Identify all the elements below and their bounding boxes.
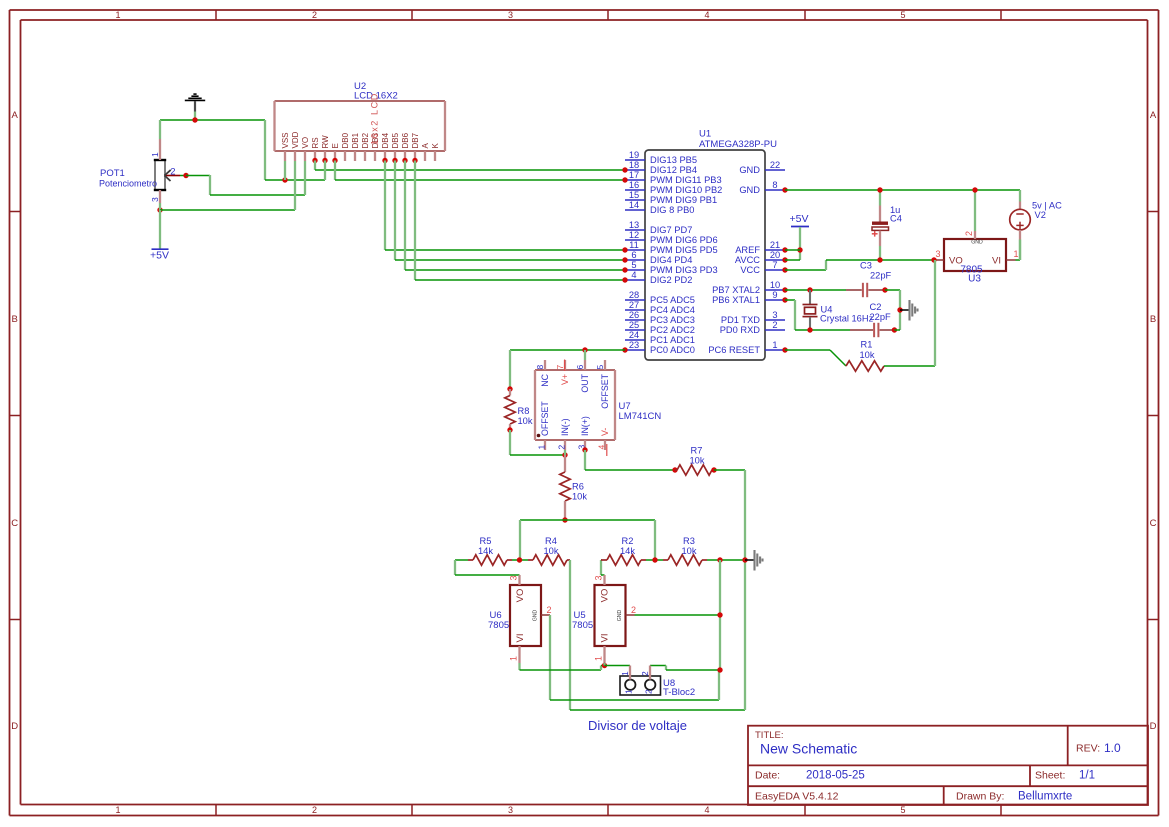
svg-text:5: 5 — [595, 365, 605, 370]
svg-text:10k: 10k — [518, 416, 533, 426]
svg-text:RW: RW — [321, 135, 330, 149]
svg-text:26: 26 — [629, 310, 639, 320]
wire — [509, 350, 511, 389]
resistor R3 10k — [663, 536, 707, 565]
svg-text:3: 3 — [772, 310, 777, 320]
node gnd junction — [192, 117, 197, 122]
node U5 VI junction — [602, 663, 607, 668]
svg-text:OFFSET: OFFSET — [540, 401, 550, 436]
svg-text:1: 1 — [594, 656, 604, 661]
svg-text:PC6 RESET: PC6 RESET — [708, 345, 760, 355]
node U1 left pin — [622, 247, 627, 252]
svg-text:DIG7 PD7: DIG7 PD7 — [650, 225, 692, 235]
node — [717, 612, 722, 617]
potentiometer POT1 — [99, 139, 186, 203]
wire — [584, 350, 586, 360]
svg-text:Bellumxrte: Bellumxrte — [1018, 791, 1072, 803]
svg-text:Date:: Date: — [755, 770, 780, 782]
svg-text:15: 15 — [629, 190, 639, 200]
label Divisor de voltaje — [588, 718, 687, 733]
svg-text:R3: R3 — [683, 536, 695, 546]
capacitor C2 22pF — [850, 302, 894, 337]
svg-text:LM741CN: LM741CN — [619, 411, 662, 422]
svg-text:K: K — [431, 143, 440, 149]
power flag +5V (left) — [150, 249, 169, 261]
svg-text:3: 3 — [936, 249, 941, 259]
wire — [707, 559, 745, 561]
svg-text:A: A — [12, 110, 19, 121]
svg-text:R5: R5 — [480, 536, 492, 546]
wire — [885, 290, 900, 330]
source V2 5v|AC — [1010, 190, 1062, 260]
svg-text:5: 5 — [631, 260, 636, 270]
svg-text:28: 28 — [629, 290, 639, 300]
svg-text:PB7 XTAL2: PB7 XTAL2 — [712, 285, 760, 295]
node LCD pin junction — [412, 158, 417, 163]
wire — [785, 259, 800, 261]
node — [742, 557, 747, 562]
svg-text:1: 1 — [115, 10, 120, 20]
svg-text:2: 2 — [312, 805, 317, 815]
svg-text:14: 14 — [629, 200, 639, 210]
svg-text:16x2 LCD: 16x2 LCD — [370, 92, 380, 145]
svg-text:19: 19 — [629, 150, 639, 160]
wire GND rail — [785, 189, 1020, 191]
svg-text:C4: C4 — [890, 214, 902, 224]
wire — [1016, 240, 1021, 261]
svg-text:OFFSET: OFFSET — [600, 373, 610, 408]
svg-text:B: B — [1150, 314, 1156, 325]
svg-text:E: E — [331, 143, 340, 148]
node U1 right pin — [782, 267, 787, 272]
op-amp U7 LM741CN — [535, 360, 662, 457]
svg-text:T-Bloc2: T-Bloc2 — [663, 687, 695, 698]
svg-text:PB6 XTAL1: PB6 XTAL1 — [712, 295, 760, 305]
svg-text:5: 5 — [900, 10, 905, 20]
node R8 top — [507, 386, 512, 391]
svg-text:DB5: DB5 — [391, 132, 400, 148]
svg-text:1/1: 1/1 — [1079, 770, 1095, 782]
node wiper junction — [183, 173, 188, 178]
svg-text:V2: V2 — [1035, 210, 1046, 220]
svg-text:6: 6 — [575, 365, 585, 370]
node U3 GND junction — [972, 187, 977, 192]
svg-text:PWM DIG10 PB2: PWM DIG10 PB2 — [650, 185, 722, 195]
node U1 left pin — [622, 257, 627, 262]
svg-text:PWM DIG11 PB3: PWM DIG11 PB3 — [650, 175, 722, 185]
wire — [159, 120, 161, 139]
node U1 right pin — [782, 287, 787, 292]
wire — [601, 560, 605, 575]
svg-text:3: 3 — [150, 197, 160, 202]
svg-text:10k: 10k — [572, 491, 587, 501]
node U1 left pin — [622, 167, 627, 172]
wire — [1019, 189, 1021, 191]
svg-text:3: 3 — [508, 10, 513, 20]
svg-text:2: 2 — [170, 167, 175, 178]
wire — [265, 179, 325, 181]
node U1 right pin — [782, 247, 787, 252]
svg-text:2: 2 — [547, 605, 552, 615]
svg-text:22pF: 22pF — [870, 271, 892, 281]
svg-text:8: 8 — [535, 365, 545, 370]
node AREF junction — [797, 247, 802, 252]
wire — [160, 119, 265, 121]
wire — [520, 519, 655, 521]
ground (gray) at divider — [745, 550, 763, 571]
svg-text:2: 2 — [312, 10, 317, 20]
node LCD pin junction — [332, 158, 337, 163]
svg-text:R8: R8 — [518, 406, 530, 416]
svg-text:10k: 10k — [682, 546, 697, 556]
wire DB7 to DIG2 — [415, 161, 625, 281]
svg-text:1: 1 — [537, 445, 547, 450]
resistor R4 10k — [528, 536, 570, 565]
node R8 bottom — [507, 427, 512, 432]
wire — [785, 249, 800, 251]
svg-text:RS: RS — [311, 137, 320, 148]
svg-text:REV:: REV: — [1076, 743, 1100, 755]
svg-text:VSS: VSS — [281, 132, 290, 148]
node R7 left — [672, 467, 677, 472]
wire — [160, 209, 295, 211]
svg-text:DB7: DB7 — [411, 132, 420, 148]
svg-text:B: B — [12, 314, 18, 325]
svg-text:10: 10 — [770, 280, 780, 290]
svg-text:Sheet:: Sheet: — [1035, 770, 1065, 782]
svg-text:2: 2 — [964, 231, 974, 236]
svg-text:R6: R6 — [572, 482, 584, 492]
svg-text:AVCC: AVCC — [735, 255, 760, 265]
svg-text:NC: NC — [540, 373, 550, 386]
svg-text:V+: V+ — [560, 374, 570, 385]
svg-text:6: 6 — [631, 250, 636, 260]
svg-text:3: 3 — [508, 805, 513, 815]
svg-text:POT1: POT1 — [100, 168, 125, 179]
node LCD pin junction — [382, 158, 387, 163]
node C4 top — [877, 187, 882, 192]
wire — [570, 560, 745, 710]
svg-text:13: 13 — [629, 220, 639, 230]
svg-text:10k: 10k — [544, 546, 559, 556]
svg-text:3: 3 — [594, 575, 604, 580]
wire — [194, 112, 196, 121]
node IN+ junction — [582, 447, 587, 452]
svg-text:4: 4 — [704, 805, 709, 815]
node — [807, 287, 812, 292]
regulator U6 7805 — [488, 575, 552, 663]
svg-text:PWM DIG5 PD5: PWM DIG5 PD5 — [650, 245, 718, 255]
wire — [159, 210, 161, 249]
svg-text:D: D — [11, 721, 18, 732]
svg-text:14k: 14k — [620, 546, 635, 556]
svg-text:DB1: DB1 — [351, 132, 360, 148]
svg-text:2: 2 — [644, 689, 654, 694]
svg-text:4: 4 — [597, 445, 607, 450]
node C4 bottom — [877, 257, 882, 262]
node U1 right pin — [782, 257, 787, 262]
svg-text:7805: 7805 — [488, 620, 509, 631]
wire — [510, 430, 565, 455]
title block — [748, 726, 1148, 805]
svg-text:OUT: OUT — [580, 373, 590, 392]
wire — [714, 470, 745, 560]
svg-text:VI: VI — [515, 634, 526, 643]
svg-text:8: 8 — [772, 180, 777, 190]
svg-text:VO: VO — [301, 137, 310, 149]
wire — [294, 161, 296, 210]
svg-text:C: C — [11, 518, 18, 529]
svg-text:1.0: 1.0 — [1104, 741, 1121, 755]
resistor R2 14k — [601, 536, 646, 565]
svg-text:1: 1 — [620, 671, 630, 676]
svg-text:Potenciometro: Potenciometro — [99, 179, 157, 189]
wire — [884, 260, 935, 366]
wire DB4 to DIG5 — [385, 161, 625, 251]
regulator U5 7805 — [572, 575, 636, 663]
node R6 bottom — [562, 517, 567, 522]
svg-text:22: 22 — [770, 160, 780, 170]
node — [717, 667, 722, 672]
svg-text:PC1 ADC1: PC1 ADC1 — [650, 335, 695, 345]
svg-text:20: 20 — [770, 250, 780, 260]
svg-text:DB6: DB6 — [401, 132, 410, 148]
svg-text:AREF: AREF — [735, 245, 760, 255]
wire — [605, 663, 631, 666]
svg-text:PWM DIG3 PD3: PWM DIG3 PD3 — [650, 265, 718, 275]
wire RW to VSS — [324, 161, 326, 181]
wire — [585, 450, 675, 470]
wire — [564, 450, 566, 455]
terminal block U8 T-Bloc2 — [620, 666, 695, 699]
svg-text:10k: 10k — [860, 350, 875, 360]
svg-text:2: 2 — [640, 671, 650, 676]
node R7 right — [711, 467, 716, 472]
svg-text:7: 7 — [772, 260, 777, 270]
svg-text:2: 2 — [772, 320, 777, 330]
svg-text:27: 27 — [629, 300, 639, 310]
svg-text:VDD: VDD — [291, 131, 300, 148]
svg-text:DB4: DB4 — [381, 132, 390, 148]
svg-text:PWM DIG9 PB1: PWM DIG9 PB1 — [650, 195, 717, 205]
wire — [264, 120, 266, 180]
wire U6 GND — [550, 615, 719, 700]
svg-text:18: 18 — [629, 160, 639, 170]
ground (gray) at crystal — [900, 300, 918, 321]
wire RESET — [785, 350, 846, 366]
node OUT junction — [582, 347, 587, 352]
node U1 left pin — [622, 277, 627, 282]
wire — [650, 666, 720, 671]
svg-text:PD1 TXD: PD1 TXD — [721, 315, 760, 325]
svg-text:PC4 ADC4: PC4 ADC4 — [650, 305, 695, 315]
node R2/R3 junction — [652, 557, 657, 562]
wire — [654, 520, 656, 560]
svg-text:IN(-): IN(-) — [560, 418, 570, 436]
node — [882, 287, 887, 292]
wire — [209, 175, 211, 195]
svg-text:1: 1 — [509, 656, 519, 661]
crystal U4 — [803, 290, 874, 330]
wire — [519, 520, 521, 560]
svg-text:Crystal 16Hz: Crystal 16Hz — [820, 314, 874, 324]
svg-text:VI: VI — [600, 634, 611, 643]
svg-text:A: A — [1150, 110, 1157, 121]
svg-text:1: 1 — [150, 152, 160, 157]
node U1 left pin — [622, 177, 627, 182]
svg-text:GND: GND — [971, 240, 983, 246]
wire — [646, 559, 663, 561]
wire VSS stub — [284, 161, 286, 180]
svg-text:1: 1 — [115, 805, 120, 815]
svg-text:U3: U3 — [968, 274, 981, 285]
svg-text:24: 24 — [629, 330, 639, 340]
node LCD pin junction — [392, 158, 397, 163]
wire — [210, 194, 305, 196]
wire RS to DIG12 — [315, 161, 625, 171]
svg-text:New Schematic: New Schematic — [760, 741, 857, 757]
svg-text:EasyEDA V5.4.12: EasyEDA V5.4.12 — [755, 791, 839, 803]
svg-text:R1: R1 — [861, 340, 873, 350]
node — [892, 327, 897, 332]
svg-text:TITLE:: TITLE: — [755, 730, 784, 741]
wire — [455, 560, 520, 575]
svg-text:C: C — [1150, 518, 1157, 529]
svg-text:25: 25 — [629, 320, 639, 330]
svg-text:1: 1 — [772, 340, 777, 350]
svg-text:17: 17 — [629, 170, 639, 180]
svg-text:VO: VO — [600, 589, 611, 603]
node VSS junction — [282, 177, 287, 182]
power flag +5V (AREF) — [790, 213, 810, 260]
node LCD pin junction — [322, 158, 327, 163]
wire — [304, 161, 306, 195]
ground (earth) top-left — [185, 94, 205, 111]
svg-text:7: 7 — [555, 365, 565, 370]
resistor R1 10k — [846, 340, 884, 372]
resistor R5 14k — [468, 536, 512, 565]
svg-text:PC0 ADC0: PC0 ADC0 — [650, 345, 695, 355]
svg-text:PC5 ADC5: PC5 ADC5 — [650, 295, 695, 305]
wire — [159, 203, 161, 210]
wire U5 GND — [635, 614, 721, 616]
resistor R6 10k — [560, 455, 588, 520]
svg-text:+5V: +5V — [790, 213, 809, 225]
svg-text:A: A — [421, 143, 430, 149]
svg-text:DIG12 PB4: DIG12 PB4 — [650, 165, 697, 175]
svg-text:1: 1 — [624, 689, 634, 694]
svg-text:R7: R7 — [691, 446, 703, 456]
svg-text:DIG2 PD2: DIG2 PD2 — [650, 275, 692, 285]
wire VCC rail — [785, 260, 934, 270]
svg-text:14k: 14k — [478, 546, 493, 556]
node gnd stub junction — [897, 307, 902, 312]
svg-text:2018-05-25: 2018-05-25 — [806, 770, 865, 782]
wire — [186, 175, 210, 177]
svg-text:4: 4 — [704, 10, 709, 20]
node U1 right pin — [782, 187, 787, 192]
svg-text:5v | AC: 5v | AC — [1032, 201, 1062, 211]
svg-text:PC3 ADC3: PC3 ADC3 — [650, 315, 695, 325]
svg-text:21: 21 — [770, 240, 780, 250]
svg-text:9: 9 — [772, 290, 777, 300]
svg-text:U1: U1 — [699, 129, 711, 140]
wire OUT/PC0 — [510, 349, 625, 351]
svg-text:DIG13 PB5: DIG13 PB5 — [650, 155, 697, 165]
svg-text:VO: VO — [515, 589, 526, 603]
regulator U3 7805 — [934, 231, 1019, 285]
node U1 right pin — [782, 347, 787, 352]
wire XTAL1 — [785, 300, 850, 330]
wire — [974, 190, 976, 231]
svg-text:12: 12 — [629, 230, 639, 240]
svg-text:PC2 ADC2: PC2 ADC2 — [650, 325, 695, 335]
svg-text:R2: R2 — [622, 536, 634, 546]
wire XTAL2 — [785, 289, 846, 291]
svg-text:PWM DIG6 PD6: PWM DIG6 PD6 — [650, 235, 718, 245]
capacitor C4 1u — [872, 190, 902, 260]
svg-text:Drawn By:: Drawn By: — [956, 791, 1004, 803]
wire E to DIG11 — [335, 161, 625, 181]
node U1 left pin — [622, 267, 627, 272]
resistor R7 10k — [675, 446, 714, 476]
svg-text:C3: C3 — [860, 261, 872, 271]
svg-text:+5V: +5V — [150, 250, 169, 262]
svg-text:2: 2 — [557, 445, 567, 450]
node R5/R4 junction — [517, 557, 522, 562]
wire DB5 to DIG4 — [395, 161, 625, 261]
svg-text:22pF: 22pF — [870, 312, 892, 322]
svg-text:4: 4 — [631, 270, 636, 280]
node LCD pin junction — [312, 158, 317, 163]
svg-text:V-: V- — [600, 428, 610, 436]
svg-text:23: 23 — [629, 340, 639, 350]
wire — [512, 559, 528, 561]
svg-text:GND: GND — [739, 165, 760, 175]
svg-text:VI: VI — [992, 256, 1001, 267]
wire DB6 to DIG3 — [405, 161, 625, 271]
svg-text:DB0: DB0 — [341, 132, 350, 148]
svg-text:D: D — [1150, 721, 1157, 732]
svg-text:Divisor de voltaje: Divisor de voltaje — [588, 718, 687, 733]
node LCD pin junction — [402, 158, 407, 163]
svg-text:11: 11 — [629, 240, 639, 250]
IC U1 ATMEGA328P-PU — [625, 129, 785, 361]
node — [717, 557, 722, 562]
svg-text:10k: 10k — [690, 456, 705, 466]
svg-text:R4: R4 — [545, 536, 557, 546]
node U1 left pin — [622, 347, 627, 352]
svg-text:3: 3 — [509, 575, 519, 580]
svg-text:DIG4 PD4: DIG4 PD4 — [650, 255, 692, 265]
node IN- junction — [562, 452, 567, 457]
svg-text:5: 5 — [900, 805, 905, 815]
node U1 right pin — [782, 297, 787, 302]
svg-text:ATMEGA328P-PU: ATMEGA328P-PU — [699, 139, 777, 150]
capacitor C3 22pF — [846, 261, 892, 298]
wire U6 VI — [520, 663, 605, 670]
IC U2 LCD 16X2 — [275, 81, 446, 161]
node — [807, 327, 812, 332]
svg-text:C2: C2 — [870, 302, 882, 312]
svg-text:VCC: VCC — [740, 265, 760, 275]
svg-text:GND: GND — [533, 609, 539, 621]
wire — [894, 329, 900, 331]
node U3 VO junction — [931, 257, 936, 262]
svg-text:2: 2 — [631, 605, 636, 615]
node pot pin3 junction — [157, 207, 162, 212]
resistor R8 10k — [505, 389, 533, 430]
